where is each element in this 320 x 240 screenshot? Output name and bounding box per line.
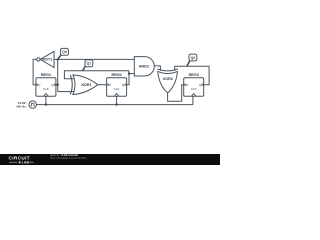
wire Q1 to AND1 lower input: [129, 73, 134, 75]
wire REG1 clock: [45, 96, 47, 104]
node Q1 junction at AND1 input: [128, 72, 130, 74]
wire REG1 Q output: [56, 84, 58, 86]
svg-text:CIRCUIT: CIRCUIT: [9, 155, 30, 160]
wire NOT1 input from Q0 node: [54, 58, 58, 60]
wire Q1 feedback to XOR1 upper input: [64, 71, 129, 79]
node Q0 junction on bus: [57, 58, 59, 60]
register REG1 (D flip-flop): [36, 72, 56, 96]
register REG2 (D flip-flop): [107, 72, 127, 96]
wire Q0 to XOR1 lower input: [58, 91, 74, 93]
wire REG2 clock: [116, 96, 118, 104]
node clock junction REG1: [45, 103, 47, 105]
svg-text:CLK: CLK: [43, 87, 49, 91]
svg-text:CLK: CLK: [114, 87, 120, 91]
wire clock bus: [36, 104, 193, 106]
svg-text:REG3: REG3: [189, 72, 200, 77]
clock source CLK2 100 Hz: [16, 101, 36, 109]
wire Q0 vertical: [57, 59, 59, 91]
wire NOT1 output to REG1 D: [33, 59, 37, 84]
wire XOR1 output to REG2 D: [98, 84, 107, 86]
svg-text:REG2: REG2: [111, 72, 122, 77]
svg-text:NOT1: NOT1: [42, 57, 53, 62]
svg-text:LAB: LAB: [22, 161, 30, 165]
svg-text:XOR1: XOR1: [81, 82, 92, 87]
svg-text:100 Hz: 100 Hz: [16, 105, 26, 109]
node label Q2: [187, 54, 197, 66]
wire REG3 clock: [192, 96, 194, 104]
footer CircuitLab logo: [9, 155, 34, 164]
svg-text:XOR2: XOR2: [163, 76, 174, 81]
node Q0 junction at REG1 Q: [57, 84, 59, 86]
xor-gate XOR1: [70, 75, 98, 95]
node clock junction REG2: [115, 103, 117, 105]
wire Q0 bus to AND1 upper input: [58, 58, 135, 60]
node label Q1: [83, 60, 93, 71]
svg-text:http://circuitlab.com/c/734h9b: http://circuitlab.com/c/734h9b: [50, 156, 87, 160]
svg-text:Q2: Q2: [191, 56, 196, 60]
svg-text:Q0: Q0: [62, 50, 67, 54]
wire Q1 vertical from REG2 Q: [127, 71, 129, 85]
footer bar: [0, 154, 220, 165]
svg-text:AND1: AND1: [139, 63, 150, 68]
inverter NOT1: [37, 51, 54, 67]
wire Q2 from REG3 Q to XOR2 right input: [175, 66, 209, 84]
register REG3 (D flip-flop): [184, 72, 204, 96]
wire XOR2 output to REG3 D: [168, 85, 184, 102]
svg-text:CLK: CLK: [191, 87, 197, 91]
and-gate AND1: [134, 57, 154, 76]
svg-text:Q1: Q1: [87, 62, 92, 66]
node label Q0: [58, 48, 69, 59]
svg-text:REG1: REG1: [41, 72, 52, 77]
wire AND1 output to XOR2 left input: [154, 66, 160, 71]
xor-gate XOR2 (rotated, pointing down): [157, 69, 178, 93]
